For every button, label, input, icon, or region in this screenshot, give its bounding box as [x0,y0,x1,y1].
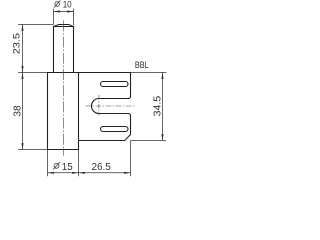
23.5 arrow up [21,25,23,31]
34.5 arrow down [161,134,163,140]
svg-text:23.5: 23.5 [11,33,22,54]
dia15 arrow right / 26.5 arrow left [72,172,78,174]
svg-text:BBL: BBL [135,60,149,70]
dia10 dimension line [54,11,74,13]
34.5 arrow up [161,73,163,79]
bottom slot [101,127,129,132]
barrel outline [48,73,79,150]
23.5/38 extension line mid [18,72,47,74]
34.5 extension line bottom [131,140,167,142]
middle open slot [92,99,129,114]
dia10 extension lines [53,9,55,25]
svg-text:15: 15 [62,162,73,173]
dia10 arrow left [54,10,60,12]
34.5 extension line top [131,72,167,74]
23.5 arrow down / 38 arrow up [21,66,23,72]
svg-text:34.5: 34.5 [153,95,164,116]
38 extension line bottom [18,149,47,151]
dia10 arrow right [67,10,73,12]
dia symbol of dia10 [54,0,60,7]
dia symbol of dia15 [53,162,60,169]
svg-text:38: 38 [12,105,23,117]
bottom chain dimension line [48,172,131,174]
middle slot horizontal centerline [86,105,136,107]
left chain dimension line [22,25,24,150]
middle slot vertical centerline [98,95,100,116]
34.5 dimension line [162,73,164,141]
26.5 arrow right [124,172,130,174]
svg-text:10: 10 [63,0,72,9]
pin vertical centerline [63,20,65,155]
38 arrow down [21,143,23,149]
26.5 extension line right [130,141,132,177]
svg-text:26.5: 26.5 [92,162,112,173]
dia15 arrow left [48,172,54,174]
pin chamfer base line [54,26,74,28]
hinge pin outline [54,25,74,73]
top slot [101,82,129,87]
23.5 extension line top [18,24,53,26]
frame plate outline [48,73,131,141]
dia15 extension line left [47,150,49,177]
dia15/26.5 extension line mid [78,150,80,177]
